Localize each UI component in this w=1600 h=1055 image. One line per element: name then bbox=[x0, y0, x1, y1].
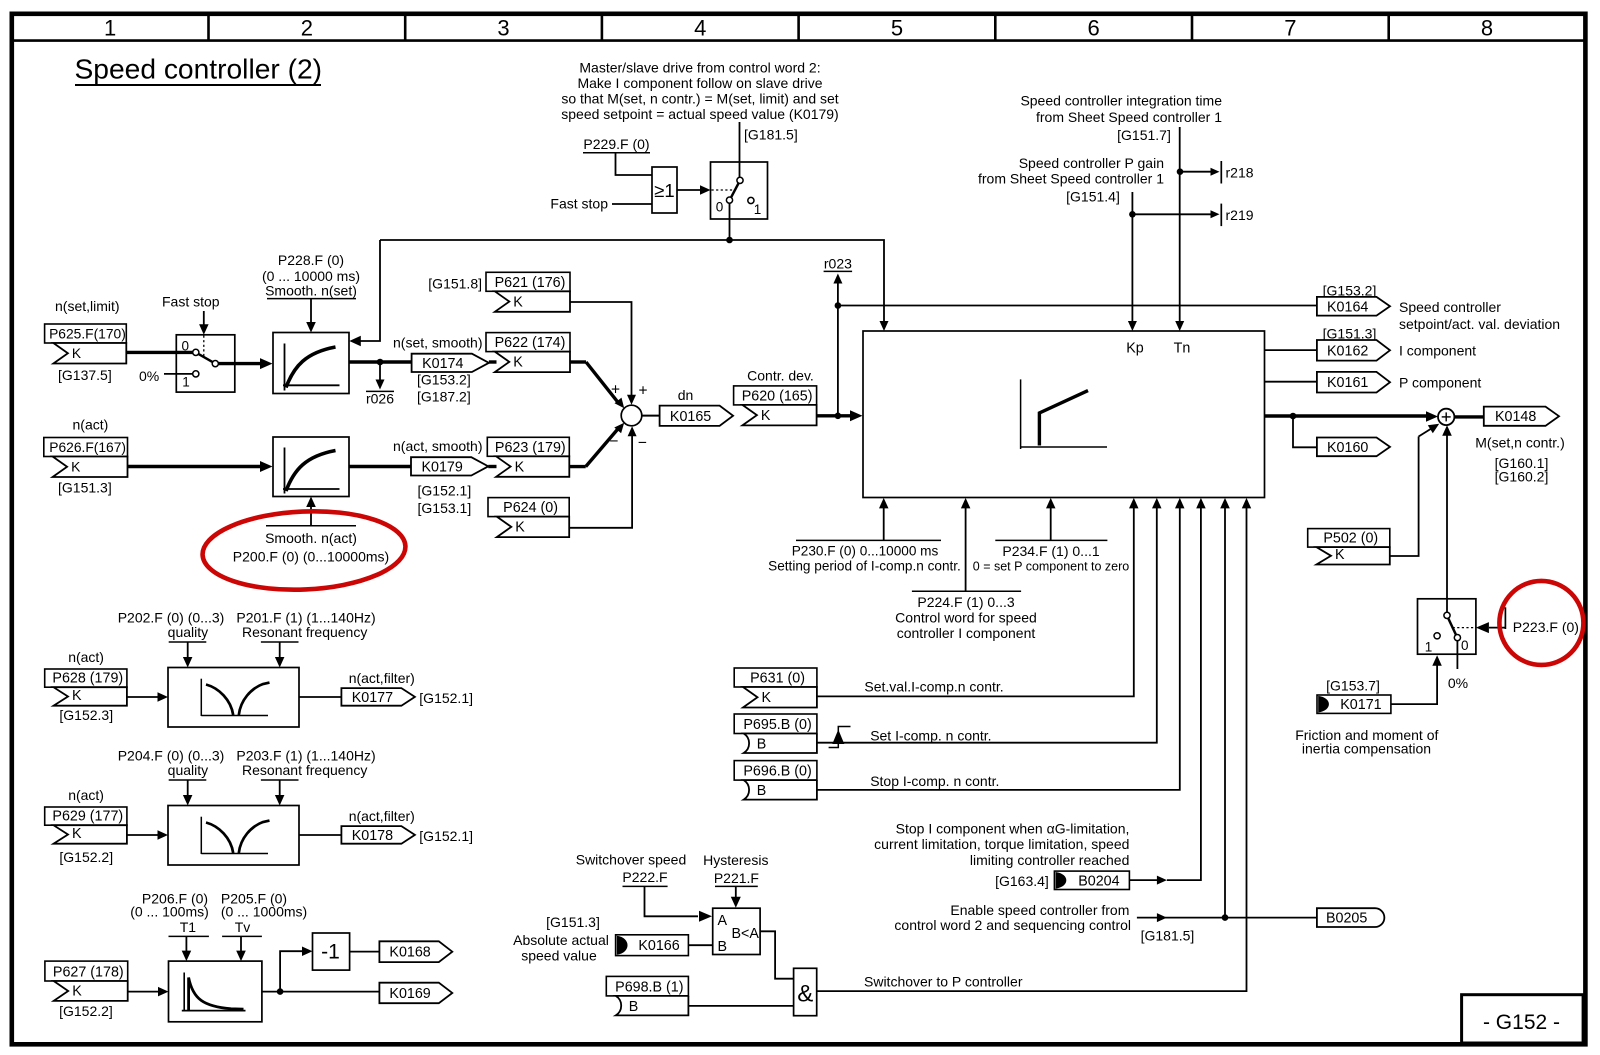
wire 0% stub bbox=[1456, 641, 1458, 669]
label [G152.3] bbox=[59, 707, 113, 723]
connector P629 (177) bbox=[45, 807, 127, 844]
svg-text:K0177: K0177 bbox=[352, 690, 393, 706]
svg-text:speed setpoint = actual speed: speed setpoint = actual speed value (K01… bbox=[561, 106, 838, 122]
node r219 tap bbox=[1129, 211, 1136, 218]
label dn bbox=[678, 387, 694, 403]
svg-text:5: 5 bbox=[891, 15, 903, 40]
parameter P234 set P component to zero bbox=[973, 540, 1130, 573]
svg-text:[G137.5]: [G137.5] bbox=[58, 367, 112, 383]
smoothing block n(act) PT1 bbox=[273, 437, 349, 497]
svg-text:[G181.5]: [G181.5] bbox=[744, 127, 798, 143]
wire friction switch to adder bbox=[1442, 425, 1452, 599]
node enable branch bbox=[1222, 914, 1229, 921]
svg-text:Speed controller P gain: Speed controller P gain bbox=[1019, 155, 1164, 171]
svg-text:so that M(set, n contr.) = M(s: so that M(set, n contr.) = M(set, limit)… bbox=[561, 91, 838, 107]
svg-text:speed value: speed value bbox=[521, 948, 597, 964]
connector P625.F(170) bbox=[45, 324, 127, 364]
wire P222 to comparator A bbox=[645, 886, 713, 921]
parameter P200 smoothing n(act) bbox=[233, 526, 389, 565]
label [G152.1] after K0178 bbox=[419, 828, 473, 844]
label [G153.2] under K0174 bbox=[417, 372, 471, 388]
svg-text:M(set,n contr.): M(set,n contr.) bbox=[1475, 435, 1564, 451]
parameter P202 quality bbox=[118, 610, 225, 643]
svg-text:6: 6 bbox=[1088, 15, 1100, 40]
svg-text:1: 1 bbox=[1425, 640, 1433, 655]
label Tn bbox=[1174, 341, 1191, 357]
title Speed controller (2) bbox=[75, 53, 323, 86]
svg-text:K0168: K0168 bbox=[389, 945, 430, 961]
svg-text:K: K bbox=[515, 459, 525, 475]
connector output K0165 bbox=[660, 406, 734, 426]
wire deviation to K0164 bbox=[838, 305, 1317, 307]
arrow P234 into controller bbox=[1046, 498, 1056, 541]
label n(act,filter) 1 bbox=[349, 670, 415, 686]
wire P620 to speed controller box bbox=[817, 410, 863, 421]
connector output K0177 bbox=[341, 688, 415, 706]
connector source K0166 bbox=[616, 935, 689, 956]
plus sign left bbox=[611, 382, 620, 399]
wire DT1 output to node bbox=[262, 991, 280, 993]
svg-text:P620 (165): P620 (165) bbox=[742, 388, 813, 404]
parameter P201 resonant frequency bbox=[236, 610, 375, 643]
svg-text:K0165: K0165 bbox=[670, 409, 711, 425]
label 0% (friction switch) bbox=[1448, 675, 1468, 691]
svg-text:K: K bbox=[1335, 547, 1345, 563]
svg-text:P229.F (0): P229.F (0) bbox=[583, 136, 649, 152]
arrow P228 into smoothing block bbox=[306, 299, 316, 333]
svg-text:K0169: K0169 bbox=[389, 986, 430, 1002]
wire controller output to adder bbox=[1265, 411, 1439, 422]
svg-text:r218: r218 bbox=[1226, 165, 1254, 181]
svg-text:P221.F: P221.F bbox=[714, 870, 759, 886]
svg-text:current limitation, torque lim: current limitation, torque limitation, s… bbox=[874, 836, 1129, 852]
svg-text:[G152.3]: [G152.3] bbox=[59, 707, 113, 723]
label n(set, smooth) bbox=[393, 335, 482, 351]
svg-text:K0162: K0162 bbox=[1327, 343, 1368, 359]
svg-text:1: 1 bbox=[182, 375, 190, 390]
svg-text:n(act): n(act) bbox=[68, 787, 104, 803]
svg-text:[G151.4]: [G151.4] bbox=[1066, 189, 1120, 205]
adder circle with plus bbox=[1438, 409, 1454, 425]
svg-text:B0204: B0204 bbox=[1078, 873, 1119, 889]
svg-text:Smooth. n(set): Smooth. n(set) bbox=[265, 283, 357, 299]
svg-text:K: K bbox=[71, 460, 81, 475]
label Set.val.I-comp.n contr. bbox=[864, 679, 1003, 695]
svg-text:Hysteresis: Hysteresis bbox=[703, 852, 768, 868]
wire K0174 to P622 bbox=[489, 360, 497, 363]
DT1 block box bbox=[169, 961, 262, 1022]
wire enable to B0205 and controller bbox=[1137, 498, 1317, 922]
connector output K0168 bbox=[379, 941, 452, 962]
svg-text:[G153.1]: [G153.1] bbox=[418, 500, 472, 516]
arrow P230 into controller bbox=[879, 498, 889, 541]
arrow P224 into controller bbox=[961, 498, 971, 591]
minus sign right bbox=[638, 435, 647, 452]
svg-text:P224.F (1) 0...3: P224.F (1) 0...3 bbox=[917, 594, 1014, 610]
parameter P221.F bbox=[714, 870, 759, 886]
connector output K0169 bbox=[379, 983, 452, 1004]
connector P623 (179) bbox=[487, 437, 569, 477]
connector P695.B (0) bbox=[734, 714, 817, 753]
svg-text:from Sheet Speed controller 1: from Sheet Speed controller 1 bbox=[1036, 109, 1222, 125]
svg-text:Resonant frequency: Resonant frequency bbox=[242, 624, 367, 640]
parameter P229.F (0) bbox=[583, 136, 650, 153]
svg-text:- G152 -: - G152 - bbox=[1483, 1011, 1560, 1034]
wire comparator to AND gate bbox=[760, 931, 794, 978]
label Speed controller setpoint deviation bbox=[1399, 299, 1560, 332]
svg-text:K: K bbox=[513, 355, 523, 371]
label [G151.3] (K0166) bbox=[546, 914, 600, 930]
wire P621 to summing point bbox=[570, 302, 636, 405]
label [G153.2] above K0164 bbox=[1323, 283, 1377, 299]
svg-text:K0148: K0148 bbox=[1495, 409, 1536, 425]
svg-text:I component: I component bbox=[1399, 343, 1476, 359]
arrow T1 into DT1 bbox=[182, 936, 192, 961]
svg-text:2: 2 bbox=[301, 15, 313, 40]
svg-text:Contr. dev.: Contr. dev. bbox=[747, 367, 814, 383]
wire P229 to OR gate bbox=[616, 153, 653, 175]
label Hysteresis bbox=[703, 852, 768, 868]
svg-text:K: K bbox=[72, 346, 82, 361]
svg-text:K0179: K0179 bbox=[421, 459, 462, 475]
connector output K0178 bbox=[341, 826, 415, 844]
svg-text:n(act): n(act) bbox=[68, 649, 104, 665]
node K0160 branch bbox=[1290, 413, 1297, 420]
OR gate >=1 bbox=[652, 167, 677, 213]
svg-text:K: K bbox=[513, 294, 523, 310]
label n(act, smooth) bbox=[393, 438, 482, 454]
svg-text:n(act,filter): n(act,filter) bbox=[349, 808, 415, 824]
arrow P221 into comparator bbox=[731, 886, 741, 907]
svg-text:Stop I component when αG-limit: Stop I component when αG-limitation, bbox=[896, 821, 1130, 837]
wire K0171 to switch bbox=[1391, 655, 1442, 704]
svg-text:P621 (176): P621 (176) bbox=[495, 275, 566, 291]
parameter P223.F (0) bbox=[1505, 607, 1579, 635]
label [G152.2] under P629 bbox=[59, 849, 113, 865]
column ruler numbers bbox=[104, 14, 1493, 41]
smoothing block n(set) PT1 bbox=[273, 333, 349, 394]
svg-text:B: B bbox=[629, 999, 639, 1015]
wire P696 to controller bbox=[817, 498, 1185, 790]
svg-text:0: 0 bbox=[1461, 638, 1469, 653]
wire P component out bbox=[1265, 381, 1317, 383]
svg-text:B<A: B<A bbox=[732, 926, 760, 942]
wire adder to K0148 bbox=[1454, 415, 1484, 418]
svg-text:≥1: ≥1 bbox=[654, 180, 674, 201]
svg-text:K: K bbox=[72, 826, 82, 842]
wire Tn input bbox=[1175, 127, 1184, 331]
display value r218 bbox=[1180, 161, 1254, 184]
svg-text:0%: 0% bbox=[1448, 675, 1468, 691]
label Switchover speed bbox=[576, 852, 687, 868]
label I component bbox=[1399, 343, 1476, 359]
arrow Fast stop into switch bbox=[199, 311, 209, 335]
svg-text:Stop I-comp. n contr.: Stop I-comp. n contr. bbox=[870, 773, 999, 789]
svg-text:K: K bbox=[762, 690, 772, 706]
wire switch output down to node bbox=[729, 203, 731, 240]
label [G163.4] bbox=[995, 873, 1049, 889]
svg-text:n(set, smooth): n(set, smooth) bbox=[393, 335, 482, 351]
display value r026 bbox=[366, 362, 394, 407]
label [G181.5] bottom bbox=[1141, 928, 1195, 944]
connector source K0171 bbox=[1317, 695, 1391, 713]
wire node across to controller box bbox=[380, 240, 889, 331]
speed controller PI box bbox=[863, 331, 1265, 498]
svg-text:P223.F (0): P223.F (0) bbox=[1513, 619, 1579, 635]
parameter P228.F (0) smoothing bbox=[262, 252, 360, 299]
wire P502 to adder bbox=[1390, 424, 1439, 556]
wire switch to smoothing block n(set) bbox=[218, 358, 272, 369]
svg-text:[G152.2]: [G152.2] bbox=[59, 1003, 113, 1019]
svg-text:Fast stop: Fast stop bbox=[550, 196, 608, 212]
svg-text:A: A bbox=[718, 913, 728, 929]
svg-text:P502 (0): P502 (0) bbox=[1323, 531, 1378, 547]
svg-text:P200.F (0) (0...10000ms): P200.F (0) (0...10000ms) bbox=[233, 549, 389, 565]
svg-text:Tv: Tv bbox=[235, 919, 251, 935]
svg-text:dn: dn bbox=[678, 387, 694, 403]
connector P620 (165) bbox=[734, 386, 817, 426]
label Set I-comp. n contr. bbox=[870, 728, 991, 744]
connector P624 (0) bbox=[488, 498, 569, 537]
svg-text:0: 0 bbox=[182, 339, 190, 354]
PI step response curve bbox=[1021, 379, 1107, 449]
node K0164 branch bbox=[835, 302, 842, 309]
wire summing point to K0165 bbox=[642, 415, 661, 417]
note Stop I component when limitations bbox=[874, 821, 1129, 869]
label M(set,n contr.) bbox=[1475, 435, 1564, 451]
wire P629 to filter 2 bbox=[127, 830, 168, 840]
label [G152.1] under K0179 bbox=[418, 483, 472, 499]
wire Kp input bbox=[1128, 192, 1137, 331]
label Fast stop (switch) bbox=[162, 294, 220, 310]
svg-text:r219: r219 bbox=[1226, 207, 1254, 223]
svg-text:+: + bbox=[638, 383, 647, 400]
note speed controller P gain bbox=[978, 155, 1164, 205]
connector P502 (0) bbox=[1308, 529, 1390, 565]
svg-text:P230.F (0) 0...10000 ms: P230.F (0) 0...10000 ms bbox=[792, 544, 939, 559]
label [G153.1] under K0179 bbox=[418, 500, 472, 516]
wire P698 to AND gate bbox=[688, 1005, 793, 1007]
svg-text:r026: r026 bbox=[366, 391, 394, 407]
svg-text:K0164: K0164 bbox=[1327, 299, 1368, 315]
parameter P205 Tv bbox=[221, 891, 307, 937]
svg-text:P631 (0): P631 (0) bbox=[750, 671, 805, 687]
label [G187.2] under K0174 bbox=[417, 389, 471, 405]
svg-text:B: B bbox=[718, 939, 728, 955]
svg-text:K: K bbox=[72, 983, 82, 999]
svg-text:(0 ... 100ms): (0 ... 100ms) bbox=[130, 904, 209, 920]
svg-text:quality: quality bbox=[168, 624, 208, 640]
svg-text:P622 (174): P622 (174) bbox=[495, 335, 566, 351]
gain block -1 bbox=[313, 933, 350, 970]
wire P628 to filter 1 bbox=[127, 692, 168, 702]
svg-text:+: + bbox=[611, 382, 620, 399]
svg-text:Smooth. n(act): Smooth. n(act) bbox=[265, 530, 357, 546]
connector P626.F(167) bbox=[44, 438, 128, 478]
wire 0% to switch contact bbox=[164, 373, 193, 375]
svg-text:P624 (0): P624 (0) bbox=[503, 500, 558, 516]
label Switchover to P controller bbox=[864, 974, 1023, 990]
wire P622 to summing point (diagonal) bbox=[570, 362, 624, 408]
svg-text:[G151.7]: [G151.7] bbox=[1117, 127, 1171, 143]
svg-text:−: − bbox=[609, 433, 618, 450]
svg-text:[G160.2]: [G160.2] bbox=[1495, 469, 1549, 485]
arrow quality into filter 1 bbox=[183, 642, 193, 668]
connector P628 (179) bbox=[45, 669, 127, 706]
connector output K0162 bbox=[1317, 340, 1390, 361]
node at switch output bbox=[726, 237, 733, 244]
wire smoothing n(act) to K0179 bbox=[349, 465, 411, 468]
svg-text:0: 0 bbox=[716, 200, 724, 215]
svg-text:K: K bbox=[515, 520, 525, 536]
connector output K0148 bbox=[1484, 407, 1559, 426]
svg-text:K0171: K0171 bbox=[1340, 697, 1381, 713]
svg-text:[G151.3]: [G151.3] bbox=[546, 914, 600, 930]
connector P621 (176) bbox=[486, 272, 570, 312]
arrow quality into filter 2 bbox=[183, 780, 193, 806]
display value r023 bbox=[824, 256, 853, 416]
svg-text:K: K bbox=[761, 408, 771, 424]
svg-text:Fast stop: Fast stop bbox=[162, 294, 220, 310]
label Fast stop (OR input) bbox=[550, 196, 608, 212]
svg-text:B0205: B0205 bbox=[1326, 911, 1367, 927]
wire B0204 to controller bbox=[1129, 498, 1205, 885]
svg-text:Set.val.I-comp.n contr.: Set.val.I-comp.n contr. bbox=[864, 679, 1003, 695]
node DT1 output bbox=[277, 988, 284, 995]
svg-text:n(set,limit): n(set,limit) bbox=[55, 298, 120, 314]
svg-text:[G151.8]: [G151.8] bbox=[428, 276, 482, 292]
svg-text:Master/slave drive from contro: Master/slave drive from control word 2: bbox=[579, 60, 820, 76]
connector P698.B (1) bbox=[606, 976, 688, 1015]
label [G151.8] bbox=[428, 276, 482, 292]
svg-text:P628 (179): P628 (179) bbox=[52, 671, 123, 687]
wire P624 to summing point bbox=[569, 426, 636, 528]
switch master/slave S1 bbox=[711, 122, 768, 219]
note master/slave drive text bbox=[561, 60, 839, 123]
connector output K0164 bbox=[1317, 297, 1390, 316]
svg-text:from Sheet Speed controller 1: from Sheet Speed controller 1 bbox=[978, 171, 1164, 187]
svg-text:[G152.1]: [G152.1] bbox=[418, 483, 472, 499]
svg-text:Absolute actual: Absolute actual bbox=[513, 932, 609, 948]
svg-text:−: − bbox=[638, 435, 647, 452]
svg-text:Enable speed controller from: Enable speed controller from bbox=[950, 902, 1129, 918]
label Friction and moment of inertia compensation bbox=[1295, 727, 1438, 757]
svg-text:[G151.3]: [G151.3] bbox=[58, 480, 112, 496]
label [G152.2] under P627 bbox=[59, 1003, 113, 1019]
label n(act) (P626) bbox=[73, 417, 109, 433]
label [G153.7] bbox=[1326, 678, 1380, 694]
connector P627 (178) bbox=[45, 961, 128, 1001]
svg-text:[G153.7]: [G153.7] bbox=[1326, 678, 1380, 694]
label Contr. dev. bbox=[747, 367, 814, 383]
svg-text:control word 2 and sequencing: control word 2 and sequencing control bbox=[894, 917, 1131, 933]
note speed controller integration time bbox=[1020, 93, 1222, 144]
parameter P204 quality bbox=[118, 748, 225, 781]
svg-text:P629 (177): P629 (177) bbox=[52, 809, 123, 825]
wire P623 to summing point (diagonal) bbox=[569, 423, 624, 467]
svg-text:P component: P component bbox=[1399, 375, 1481, 391]
svg-text:1: 1 bbox=[754, 202, 762, 217]
svg-text:setpoint/act. val. deviation: setpoint/act. val. deviation bbox=[1399, 316, 1560, 332]
svg-text:Make I component follow on sla: Make I component follow on slave drive bbox=[577, 75, 822, 91]
svg-text:[G152.2]: [G152.2] bbox=[59, 849, 113, 865]
parameter P222.F bbox=[622, 869, 667, 886]
parameter P224 control word bbox=[895, 591, 1037, 641]
label [G152.1] after K0177 bbox=[419, 690, 473, 706]
svg-text:P234.F (1) 0...1: P234.F (1) 0...1 bbox=[1002, 543, 1099, 559]
svg-text:Resonant frequency: Resonant frequency bbox=[242, 762, 367, 778]
svg-text:K: K bbox=[72, 688, 82, 704]
binector source B0204 bbox=[1054, 871, 1129, 889]
svg-text:Speed controller: Speed controller bbox=[1399, 299, 1501, 315]
wire P627 to DT1 bbox=[128, 987, 169, 997]
svg-text:B: B bbox=[757, 737, 767, 753]
svg-text:[G181.5]: [G181.5] bbox=[1141, 928, 1195, 944]
svg-text:P696.B (0): P696.B (0) bbox=[743, 764, 811, 780]
svg-text:Control word for speed: Control word for speed bbox=[895, 610, 1037, 626]
svg-text:Tn: Tn bbox=[1174, 341, 1191, 357]
svg-text:[G153.2]: [G153.2] bbox=[417, 372, 471, 388]
svg-text:n(act,filter): n(act,filter) bbox=[349, 670, 415, 686]
svg-text:P222.F: P222.F bbox=[622, 869, 667, 885]
node r023 tap on controller input bbox=[835, 413, 842, 420]
connector output K0179 bbox=[411, 457, 488, 475]
wire branch to K0160 bbox=[1293, 416, 1317, 447]
label n(act) (P628) bbox=[68, 649, 104, 665]
svg-text:K0161: K0161 bbox=[1327, 375, 1368, 391]
wire OR gate to switch with arrow bbox=[677, 185, 711, 195]
svg-text:P698.B (1): P698.B (1) bbox=[615, 979, 683, 995]
svg-text:0%: 0% bbox=[139, 368, 159, 384]
label [G151.3] above K0162 bbox=[1323, 326, 1377, 342]
label Stop I-comp. n contr. bbox=[870, 773, 999, 789]
label Absolute actual speed value bbox=[513, 932, 609, 964]
label P component bbox=[1399, 375, 1481, 391]
switch fast stop S2 bbox=[176, 335, 235, 392]
red ellipse highlight P200 bbox=[201, 507, 407, 594]
svg-text:inertia compensation: inertia compensation bbox=[1302, 741, 1431, 757]
svg-text:[G152.1]: [G152.1] bbox=[419, 690, 473, 706]
label n(set,limit) bbox=[55, 298, 120, 314]
sheet label box G152 bbox=[1462, 995, 1584, 1043]
wire P695 to controller bbox=[817, 498, 1162, 743]
connector P622 (174) bbox=[486, 333, 570, 373]
svg-text:3: 3 bbox=[497, 15, 509, 40]
wire I component out bbox=[1265, 349, 1317, 351]
arrow resonant frequency into filter 1 bbox=[275, 642, 285, 668]
svg-text:n(act): n(act) bbox=[73, 417, 109, 433]
svg-text:B: B bbox=[757, 783, 767, 799]
svg-text:4: 4 bbox=[694, 15, 706, 40]
node r218 tap bbox=[1177, 168, 1184, 175]
arrow P223 into switch bbox=[1476, 622, 1506, 633]
wire Fast stop to OR gate bbox=[612, 203, 652, 205]
AND gate & bbox=[794, 968, 817, 1015]
svg-text:1: 1 bbox=[104, 15, 116, 40]
svg-text:P626.F(167): P626.F(167) bbox=[49, 440, 126, 455]
svg-text:Kp: Kp bbox=[1126, 341, 1144, 357]
svg-text:0 = set P component to zero: 0 = set P component to zero bbox=[973, 560, 1130, 574]
svg-text:Set I-comp. n contr.: Set I-comp. n contr. bbox=[870, 728, 991, 744]
comparator B<A box bbox=[713, 908, 760, 955]
red circle highlight P223 bbox=[1499, 581, 1583, 665]
wire K0179 to P623 bbox=[488, 465, 496, 468]
svg-text:[G152.1]: [G152.1] bbox=[419, 828, 473, 844]
svg-text:P623 (179): P623 (179) bbox=[495, 440, 566, 456]
svg-text:P627 (178): P627 (178) bbox=[53, 965, 124, 981]
wire smoothing n(set) to K0174 bbox=[349, 360, 412, 363]
svg-text:T1: T1 bbox=[180, 919, 197, 935]
